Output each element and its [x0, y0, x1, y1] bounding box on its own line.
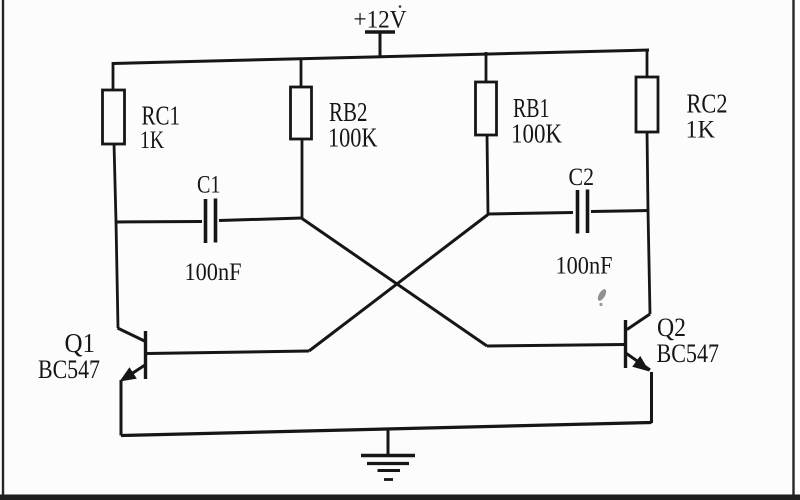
- capacitor C2: [556, 164, 613, 280]
- svg-text:1K: 1K: [140, 127, 164, 154]
- wire power rail +12V net: [112, 50, 649, 64]
- svg-text:BC547: BC547: [38, 355, 100, 384]
- wire horizontal into Q1 base: [147, 351, 309, 354]
- ground: [361, 428, 415, 480]
- resistor RB2: [291, 58, 378, 219]
- resistor RC2: [636, 49, 728, 211]
- power supply +12V symbol: [354, 5, 407, 58]
- svg-text:100K: 100K: [328, 123, 378, 153]
- svg-text:Q1: Q1: [65, 328, 96, 358]
- wire node A to C1 left plate: [116, 220, 202, 224]
- wire C1 right plate to node B (RB2 bottom): [219, 218, 302, 221]
- svg-text:C2: C2: [569, 164, 595, 191]
- wire node C (RB1 bottom) to C2 left plate: [488, 213, 573, 215]
- svg-text:Q2: Q2: [657, 313, 686, 342]
- capacitor C1: [185, 172, 242, 287]
- svg-text:100nF: 100nF: [185, 259, 242, 286]
- wire node C diagonal cross-coupling to Q1 base: [309, 215, 488, 352]
- svg-text:+12V: +12V: [354, 7, 407, 34]
- svg-text:100nF: 100nF: [556, 253, 613, 280]
- svg-text:100K: 100K: [511, 119, 562, 149]
- wire node B diagonal cross-coupling to Q2 base: [302, 219, 487, 347]
- svg-text:BC547: BC547: [657, 339, 720, 368]
- scan speck: [596, 288, 608, 302]
- transistor Q2: [626, 210, 720, 423]
- svg-text:1K: 1K: [686, 117, 716, 144]
- wire emitter bus Q1 to Q2: [121, 423, 652, 436]
- transistor Q1: [38, 221, 146, 436]
- svg-text:RC1: RC1: [142, 101, 181, 131]
- resistor RB1: [476, 52, 563, 215]
- wire horizontal into Q2 base: [487, 345, 625, 347]
- svg-text:RC2: RC2: [687, 89, 728, 119]
- resistor RC1: [103, 62, 181, 222]
- svg-text:C1: C1: [197, 172, 221, 199]
- wire C2 right plate to node D (RC2 branch): [591, 211, 649, 212]
